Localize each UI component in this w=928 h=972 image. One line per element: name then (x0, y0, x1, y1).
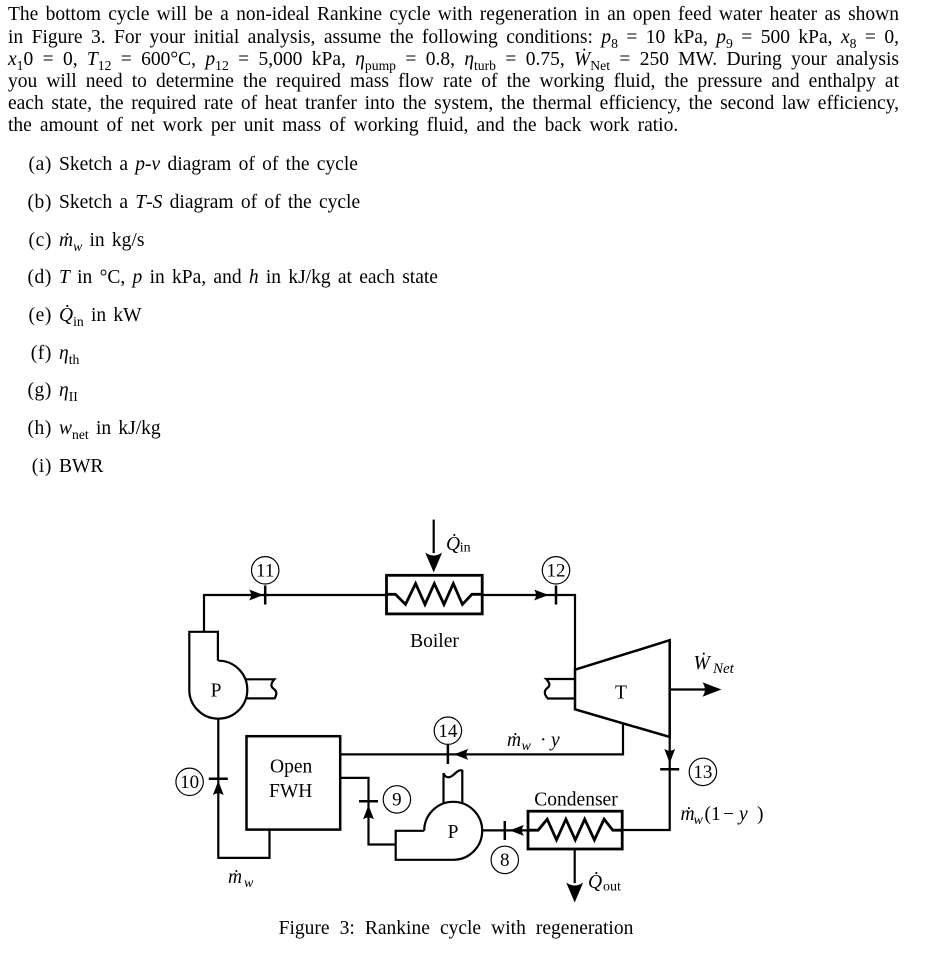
paragraph line 2 (8, 27, 899, 55)
flow arrow at node 13 (664, 749, 675, 764)
turbine T body (575, 640, 670, 737)
work output arrow W_Net (671, 688, 705, 690)
list item (b) (0, 192, 360, 214)
paragraph line 4 (8, 71, 899, 93)
wire: turbine exhaust to condenser (state 13 segment) (622, 737, 670, 830)
turbine shaft break stub (545, 679, 575, 699)
heat rejection arrow Qout (574, 849, 576, 883)
svg-text:12: 12 (547, 561, 566, 582)
list item (c) (0, 230, 144, 258)
svg-text:8: 8 (500, 850, 510, 871)
svg-text:y: y (549, 730, 560, 751)
wire: turbine extraction to FWH (state 14 segment) (340, 723, 623, 754)
pump P1 shaft break stub (246, 679, 277, 698)
flow arrow at node 9 (363, 805, 374, 820)
svg-text:(1: (1 (705, 804, 721, 825)
list item (e) (0, 305, 142, 333)
svg-text:w: w (244, 876, 254, 891)
svg-text:Net: Net (712, 661, 735, 677)
svg-text:T: T (615, 683, 627, 704)
svg-text:Boiler: Boiler (410, 631, 459, 652)
condenser coil zigzag (528, 819, 622, 840)
list item (h) (0, 418, 161, 446)
condenser box (528, 811, 622, 849)
svg-text:w: w (694, 813, 704, 828)
svg-text:P: P (211, 681, 222, 702)
svg-text:in: in (460, 541, 471, 556)
svg-text:10: 10 (180, 772, 199, 793)
svg-text:FWH: FWH (269, 781, 312, 802)
tick node 13 (660, 768, 679, 771)
svg-text:11: 11 (256, 561, 274, 582)
svg-text:Q̇: Q̇ (588, 871, 602, 893)
state label circle 8 (491, 846, 518, 873)
list item (a) (0, 154, 358, 176)
wire: boiler to turbine (state 12 segment) (482, 595, 575, 670)
svg-text:14: 14 (438, 721, 458, 742)
heat input arrow Qin (433, 520, 435, 553)
flow arrow at node 12 (534, 590, 549, 601)
state label circle 9 (383, 786, 410, 813)
pump P1 volute (189, 632, 247, 719)
svg-text:w: w (522, 739, 532, 754)
list item (d) (0, 267, 438, 289)
state label circle 12 (542, 557, 569, 584)
figure 3 diagram (0, 500, 928, 972)
flow arrow at node 10 (213, 781, 224, 796)
wire: FWH outlet loop to pump P1 inlet (state 10 segment) (218, 719, 269, 858)
state label circle 10 (176, 768, 203, 795)
svg-text:Ẇ: Ẇ (694, 652, 712, 674)
boiler box (387, 575, 483, 614)
svg-text:·: · (540, 730, 547, 751)
tick node 9 (359, 800, 378, 803)
paragraph line 3 (8, 49, 899, 77)
svg-text:−: − (723, 804, 734, 825)
pump P2 volute (396, 802, 483, 860)
state label circle 11 (252, 557, 279, 584)
pump P2 shaft break stub (444, 770, 463, 803)
svg-text:out: out (603, 880, 621, 895)
tick node 12 (555, 586, 558, 605)
svg-text:ṁ: ṁ (228, 867, 242, 888)
paragraph line 1 (8, 4, 899, 26)
svg-text:Open: Open (270, 757, 312, 778)
boiler coil zigzag (387, 584, 483, 605)
svg-text:13: 13 (693, 762, 712, 783)
state label circle 14 (434, 717, 461, 744)
svg-text:Condenser: Condenser (534, 790, 618, 811)
state label circle 13 (689, 758, 716, 785)
list item (i) (0, 456, 103, 478)
open FWH box (247, 736, 341, 829)
paragraph line 6 (8, 115, 899, 137)
flow arrow at node 14 (454, 749, 469, 760)
tick node 14 (447, 745, 450, 764)
svg-text:Q̇: Q̇ (446, 533, 460, 555)
wire: pump P2 outlet to FWH (state 9 segment) (340, 778, 396, 845)
tick node 10 (209, 778, 228, 781)
flow arrow at node 8 (510, 825, 525, 836)
paragraph line 5 (8, 93, 899, 115)
list item (f) (0, 343, 79, 371)
svg-text:ṁ: ṁ (681, 804, 695, 825)
wire: pump P1 outlet to boiler (state 11 segment) (204, 595, 387, 632)
tick node 8 (504, 821, 507, 840)
figure caption (0, 918, 920, 940)
wire: condenser to pump P2 (state 8 segment) (482, 829, 528, 831)
svg-text:): ) (757, 804, 764, 825)
svg-text:ṁ: ṁ (507, 730, 521, 751)
svg-text:P: P (448, 822, 459, 843)
svg-text:9: 9 (392, 790, 402, 811)
flow arrow at node 11 (249, 590, 264, 601)
list item (g) (0, 380, 78, 408)
svg-text:y: y (737, 804, 748, 825)
tick node 11 (264, 586, 267, 605)
